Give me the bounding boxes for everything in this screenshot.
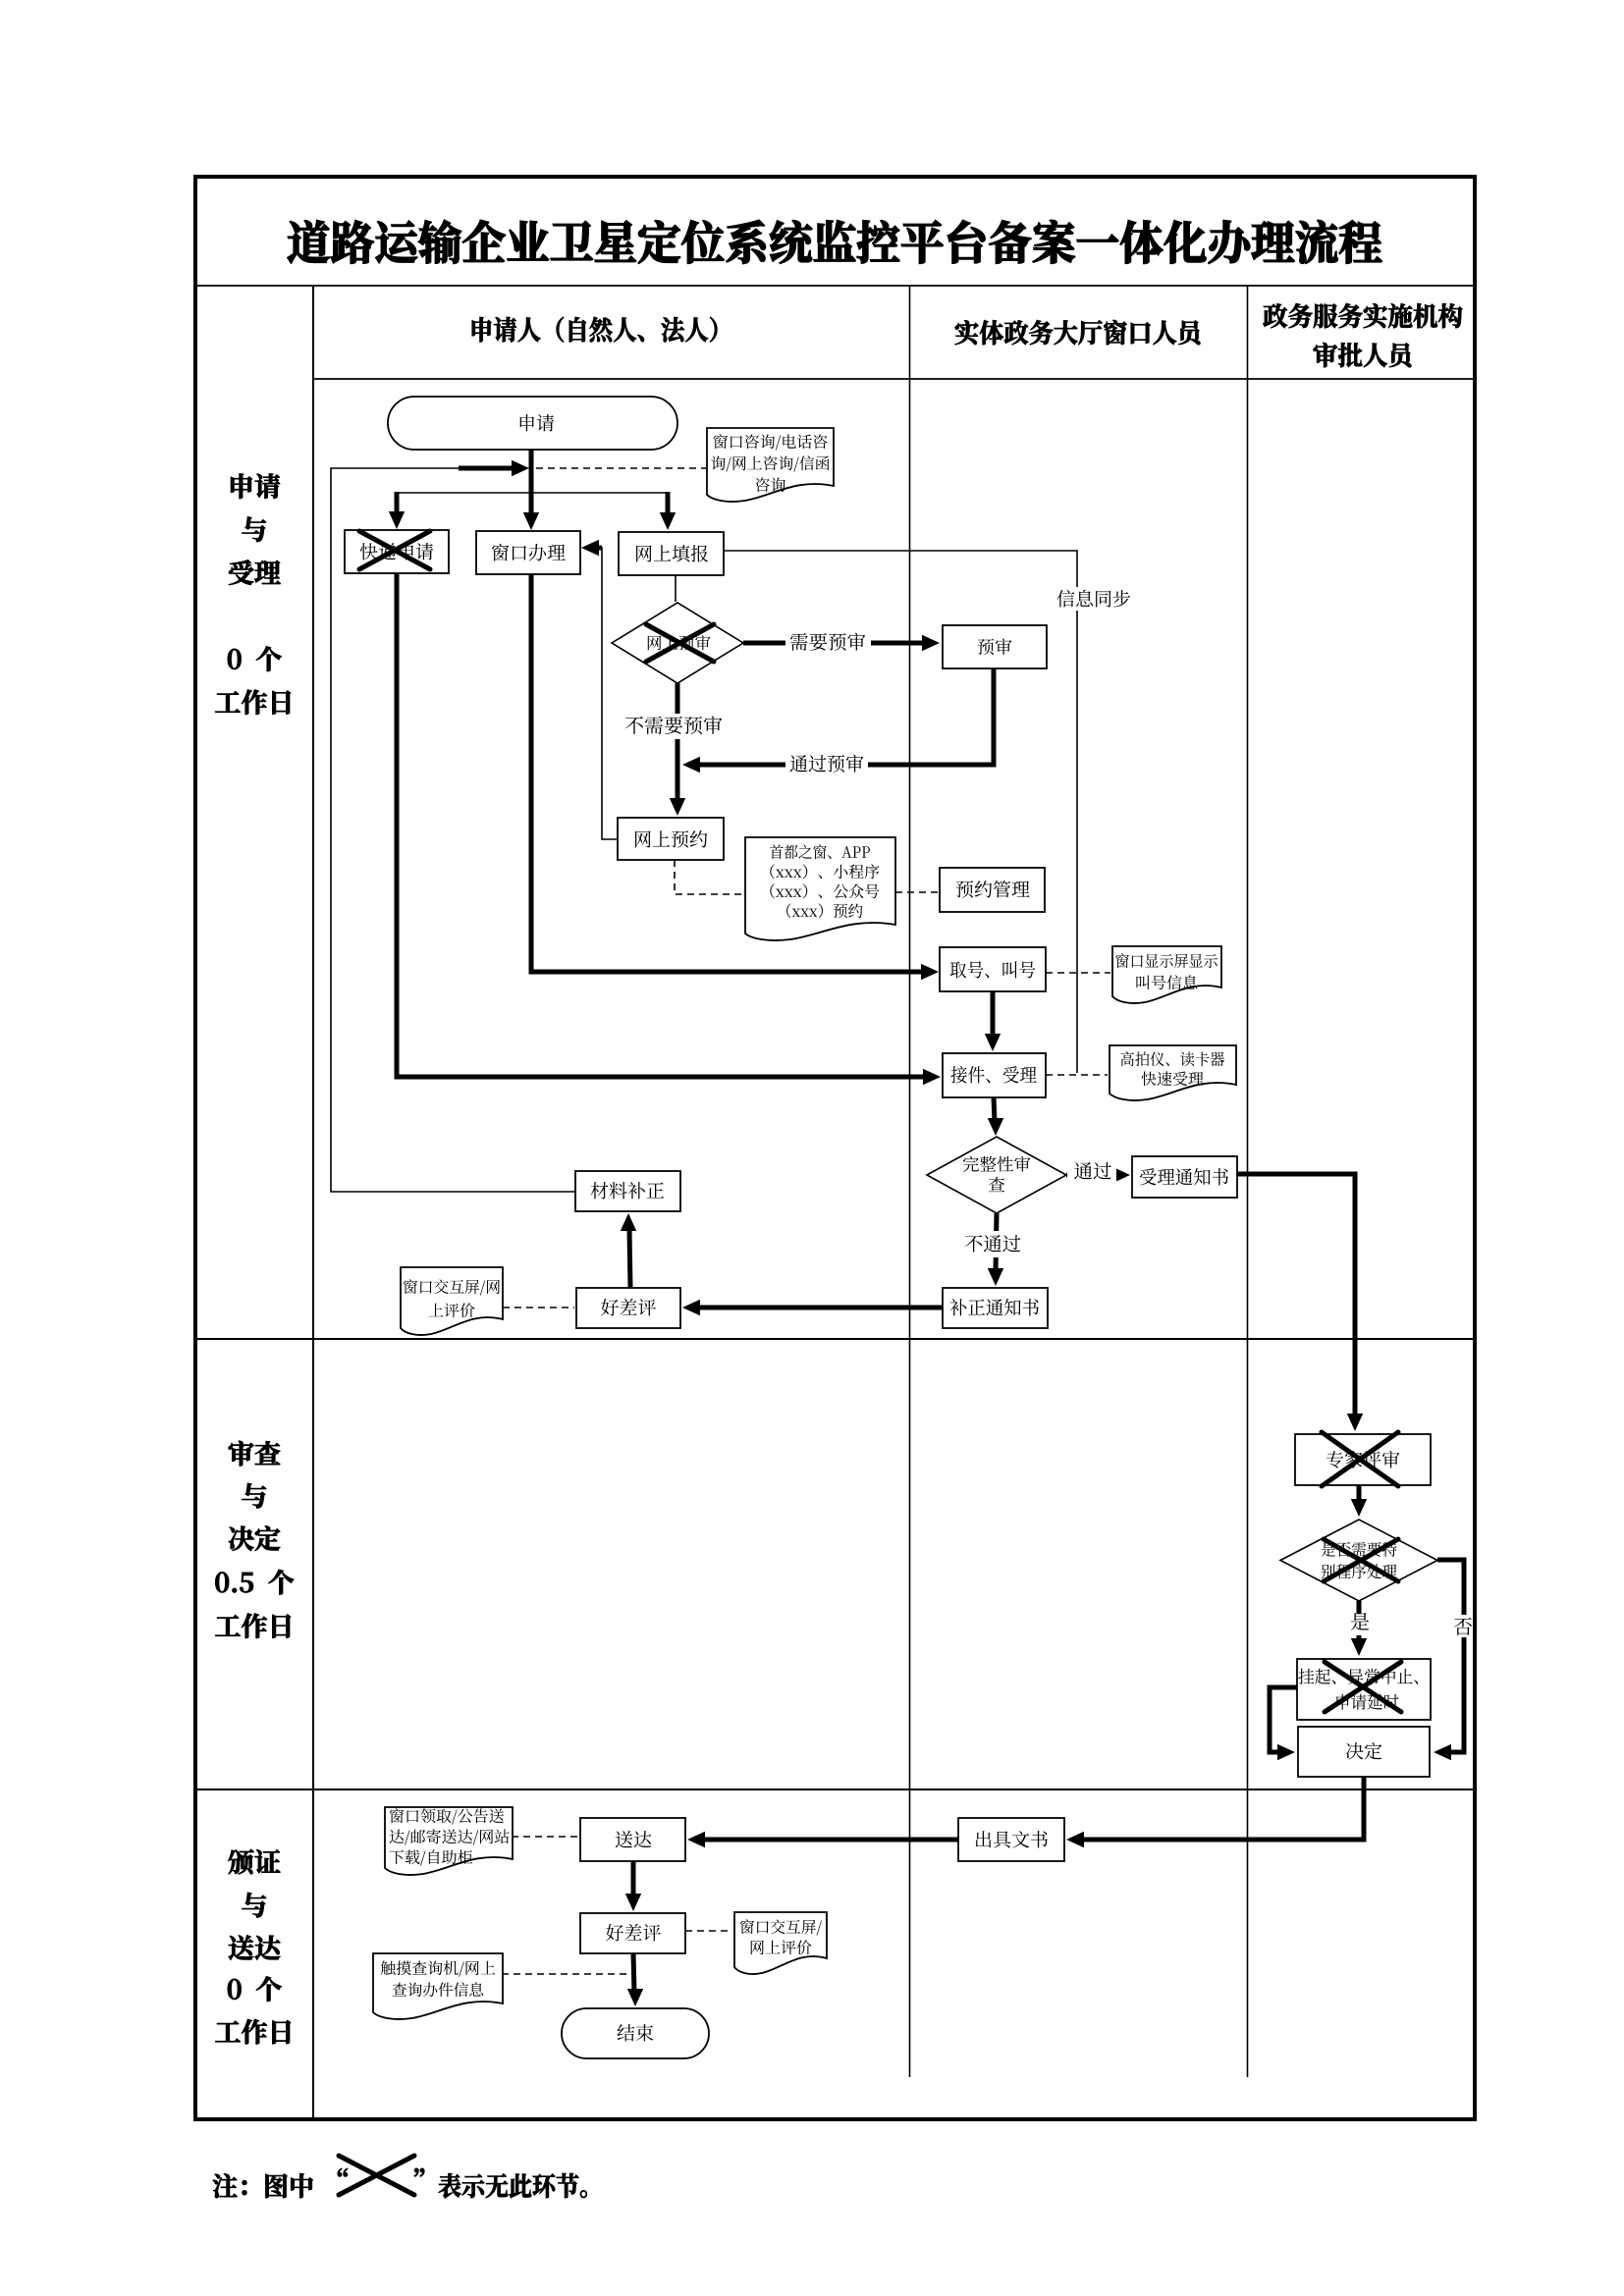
header hall staff <box>955 320 1201 345</box>
wire feedback loop from material-correction <box>331 468 575 1192</box>
wire fail to correction-notice <box>996 1213 997 1271</box>
doc consult annotation <box>707 428 834 502</box>
node take-number <box>940 947 1046 991</box>
node end <box>562 2008 709 2058</box>
wire special-diamond yes to suspend <box>1357 1601 1362 1614</box>
row separator 1 <box>193 1338 1477 1340</box>
column line applicant/hall <box>909 286 911 2077</box>
doc rating2 screen annotation <box>734 1912 827 1974</box>
wire online-fill to presreen diamond <box>675 575 677 602</box>
stage1 label <box>231 473 280 498</box>
wire info sync <box>724 551 1077 1073</box>
note text <box>213 2173 313 2198</box>
wire express to receive <box>397 573 925 1077</box>
wire prescreen-diamond down to booking <box>676 683 680 802</box>
node prescreen <box>943 625 1047 668</box>
node suspend (crossed) <box>1297 1659 1431 1720</box>
label fail <box>965 1235 983 1252</box>
wire decision to issue-document <box>1082 1777 1364 1840</box>
doc deliver ways annotation <box>385 1807 513 1875</box>
node booking-manage <box>940 868 1045 912</box>
node rating2 <box>580 1913 685 1953</box>
dashed consult annotation link <box>536 467 706 469</box>
node correction-notice <box>943 1288 1048 1328</box>
node deliver <box>580 1818 685 1861</box>
wire branch to express <box>395 492 400 515</box>
label need prescreen <box>790 633 808 651</box>
label pass prescreen <box>790 755 808 773</box>
node prescreen-diamond (crossed) <box>612 603 743 683</box>
dashed deliver annotation link <box>512 1836 578 1838</box>
node completeness-diamond <box>927 1137 1066 1213</box>
wire rating2 to end <box>633 1953 634 1993</box>
wire window-handle to take-number <box>531 574 923 972</box>
column line hall/approver <box>1247 286 1249 2077</box>
doc scanner annotation <box>1110 1045 1236 1100</box>
node window-handle <box>476 531 580 574</box>
stage2 label <box>229 1441 281 1466</box>
node online-fill <box>619 532 724 575</box>
wire rating to material-correction <box>629 1229 630 1288</box>
header approver line1 <box>1263 303 1462 328</box>
wire accept-notice to expert-review <box>1237 1174 1355 1416</box>
row separator 2 <box>193 1789 1477 1790</box>
wire receive to completeness-check <box>994 1097 995 1122</box>
doc query info annotation <box>373 1953 503 2019</box>
node online-booking <box>618 818 724 860</box>
wire deliver to rating2 <box>631 1861 636 1897</box>
wire booking to window-handle <box>596 548 618 839</box>
doc booking channels annotation <box>745 837 895 940</box>
wire pass to accept-notice <box>1066 1173 1114 1178</box>
node express-apply (crossed) <box>345 530 449 573</box>
dashed rating2 annotation link <box>685 1930 732 1932</box>
node issue-document <box>958 1818 1064 1861</box>
dashed rating annotation link <box>503 1307 574 1308</box>
wire suspend loop to decision <box>1270 1687 1297 1752</box>
header applicant <box>472 317 718 343</box>
note X symbol <box>339 2156 414 2195</box>
wire need-prescreen to prescreen box <box>743 641 923 646</box>
wire issue-document to deliver <box>703 1838 958 1842</box>
wire pass-prescreen return <box>699 668 994 765</box>
wire branch horizontal <box>397 492 668 494</box>
title <box>288 220 1381 263</box>
wire branch to online fill <box>666 492 671 516</box>
node apply (start) <box>388 397 677 450</box>
header row separator <box>313 378 1477 380</box>
header approver line2 <box>1314 343 1412 367</box>
doc rating screen annotation <box>401 1267 503 1335</box>
wire special-diamond no to decision <box>1437 1560 1464 1615</box>
node rating <box>576 1288 680 1328</box>
wire expert-review to special-diamond <box>1357 1485 1362 1503</box>
label pass <box>1074 1162 1092 1180</box>
label info sync <box>1057 590 1075 608</box>
label no <box>1454 1618 1472 1635</box>
title row separator <box>193 285 1477 287</box>
node accept-notice <box>1132 1156 1237 1198</box>
dashed booking-doc to booking-manage <box>895 891 938 893</box>
stage3 label <box>228 1849 280 1874</box>
node expert-review (crossed) <box>1295 1434 1431 1485</box>
outer frame <box>195 177 1475 2119</box>
doc call-number display annotation <box>1112 946 1221 1003</box>
label yes <box>1351 1613 1370 1630</box>
dashed query annotation link <box>502 1973 628 1975</box>
dashed booking annotation link <box>675 860 743 894</box>
stage column line <box>312 286 314 2119</box>
label no-need prescreen <box>625 717 643 734</box>
dashed take-number annotation link <box>1046 972 1110 974</box>
node decision <box>1298 1727 1430 1777</box>
wire apply down to window <box>529 450 534 517</box>
wire correction-notice to rating <box>698 1306 943 1310</box>
node material-correction <box>575 1171 680 1211</box>
node receive-accept <box>943 1053 1046 1097</box>
wire take-number to receive <box>991 991 996 1038</box>
dashed receive annotation link <box>1046 1074 1108 1076</box>
node special-procedure diamond (crossed) <box>1280 1520 1437 1601</box>
